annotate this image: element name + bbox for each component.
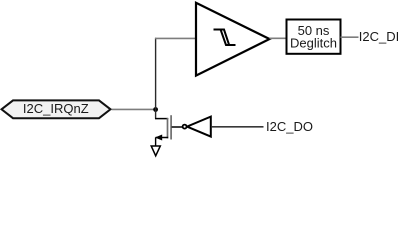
transistor Q1 source lead (156, 137, 169, 139)
junction dot (153, 107, 158, 112)
ground (151, 146, 160, 156)
svg-text:I2C_DO: I2C_DO (266, 119, 313, 134)
svg-text:I2C_DI: I2C_DI (359, 29, 398, 44)
deglitch block: 50 ns Deglitch (287, 20, 341, 54)
op-amp U1: Schmitt-trigger buffer triangle (196, 3, 270, 76)
wire: vertical from top corner through junction down to MOSFET drain bend (155, 38, 157, 119)
node I2C_IRQnZ (hexagonal port symbol) (2, 100, 111, 118)
hysteresis symbol inside Schmitt buffer (214, 30, 236, 46)
transistor Q1 gate plate (170, 115, 172, 139)
wire: horizontal to Schmitt buffer input (155, 37, 196, 39)
svg-text:I2C_IRQnZ: I2C_IRQnZ (23, 101, 89, 116)
transistor Q1 source arrowhead (155, 135, 162, 141)
transistor Q1: open-drain NMOS, drain lead (155, 118, 168, 120)
wire: Schmitt output to deglitch box (270, 37, 287, 39)
wire: source corner down to ground (155, 138, 157, 147)
wire: inverter input to I2C_DO label (212, 126, 264, 128)
inverter U2 driving gate (triangle pointing left with bubble) (187, 117, 211, 137)
svg-text:Deglitch: Deglitch (290, 36, 337, 51)
transistor Q1 channel line (167, 118, 169, 138)
wire: deglitch box to I2C_DI label (341, 36, 359, 38)
inverter U2 output bubble (183, 125, 187, 129)
transistor Q1 gate lead (172, 126, 183, 128)
wire: I2C_IRQnZ port to junction (112, 108, 155, 110)
